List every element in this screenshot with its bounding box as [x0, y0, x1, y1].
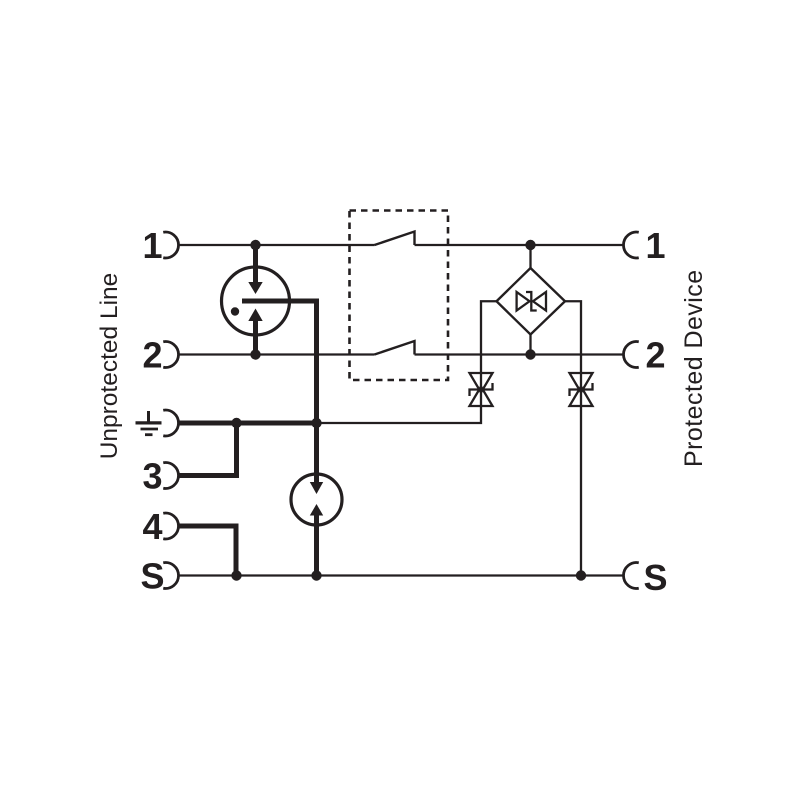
varistor diamond [497, 268, 566, 335]
TVS diode D2 bottom triangle [570, 387, 593, 407]
TVS diode D1 Z-bar [470, 383, 493, 396]
wire line 1 right segment [415, 244, 624, 246]
junction dot line1 diamond [525, 240, 535, 250]
svg-text:3: 3 [142, 455, 162, 496]
GDT1 top electrode shaft [253, 245, 258, 283]
ground symbol [136, 411, 162, 435]
terminal arc S right [623, 563, 638, 589]
TVS diode D2 (right) top triangle [570, 373, 593, 393]
wire diamond bottom stub [529, 335, 531, 355]
switch blade line 2 [375, 341, 415, 355]
terminal arc 1 right [623, 232, 638, 258]
terminal arc S left [163, 563, 178, 589]
wire terminal 3 (thick) [180, 423, 237, 476]
wire line 2 left segment [179, 353, 375, 355]
junction dot line1 GDT1 [250, 240, 260, 250]
junction dot line2 GDT1 [250, 349, 260, 359]
svg-text:S: S [643, 557, 667, 598]
svg-text:Unprotected Line: Unprotected Line [96, 273, 123, 460]
GDT2 bottom shaft (thick) [314, 516, 319, 576]
wire line 2 right segment [415, 353, 624, 355]
junction dot S line center [311, 570, 321, 580]
wire left branch (diamond left to TVS to ground node) [317, 301, 497, 423]
svg-text:4: 4 [142, 506, 162, 547]
terminal arc 2 right [623, 342, 638, 368]
junction dot ground line terminal3 riser [231, 418, 241, 428]
svg-text:Protected Device: Protected Device [680, 269, 708, 467]
wire ground line (thick) [179, 421, 317, 426]
terminal arc 3 left [163, 463, 178, 489]
junction dot S line right branch [576, 570, 586, 580]
svg-text:1: 1 [142, 225, 162, 266]
wire terminal 4 (thick) [180, 526, 237, 576]
bidirectional diode in diamond: right triangle [533, 292, 546, 311]
GDT1 middle electrode (thick) [242, 301, 317, 420]
TVS diode D1 (left) top triangle [470, 373, 493, 393]
junction dot S line terminal4 drop [231, 570, 241, 580]
GDT2 bottom arrowhead [310, 504, 323, 516]
wire line S [179, 574, 624, 576]
wire line 1 left segment [179, 244, 375, 246]
junction dot line2 diamond [525, 349, 535, 359]
TVS diode D2 Z-bar [570, 383, 593, 396]
bidirectional diode in diamond: left triangle [517, 292, 530, 311]
wire thick vertical (middle electrode drop) [314, 420, 319, 482]
GDT1 top arrowhead [248, 282, 262, 294]
svg-text:1: 1 [645, 225, 665, 266]
wire diamond top stub [529, 245, 531, 268]
GDT1 third electrode dot [231, 307, 239, 315]
wire right branch (diamond right to TVS to S line) [565, 301, 581, 575]
terminal arc 4 left [163, 513, 178, 539]
GDT2 top arrowhead [310, 482, 323, 494]
dashed disconnect box [350, 211, 449, 381]
switch blade line 1 [375, 232, 415, 246]
svg-text:2: 2 [142, 334, 162, 375]
GDT1 bottom arrowhead [248, 309, 262, 322]
gas discharge tube GDT1 (3-electrode) circle [222, 267, 290, 335]
TVS diode D1 bottom triangle [470, 387, 493, 407]
terminal arc 1 left [163, 232, 178, 258]
gas discharge tube GDT2 (2-electrode) circle [291, 474, 342, 525]
bidirectional diode in diamond: center bar [526, 292, 537, 311]
junction dot ground line center [311, 418, 321, 428]
svg-text:S: S [140, 555, 164, 596]
terminal arc ground left [163, 410, 178, 436]
terminal arc 2 left [163, 342, 178, 368]
GDT1 bottom electrode shaft [253, 321, 258, 355]
svg-text:2: 2 [645, 334, 665, 375]
